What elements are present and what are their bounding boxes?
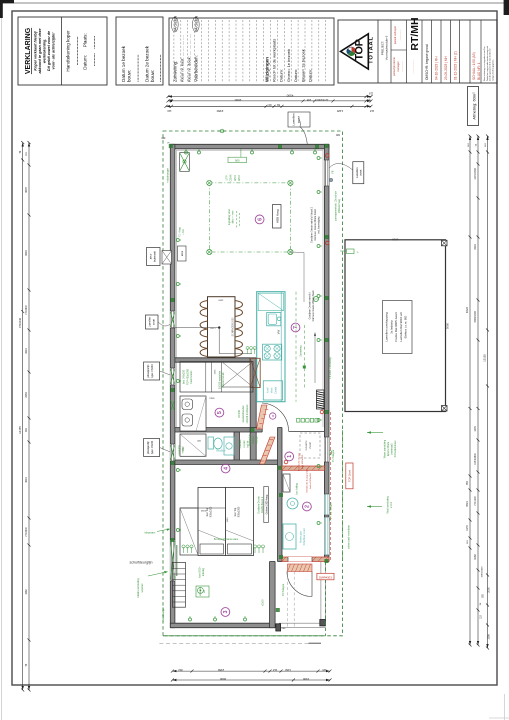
svg-text:zwart: zwart (153, 319, 156, 325)
room2 boiler (287, 498, 298, 509)
svg-text:+ hor: + hor (182, 229, 185, 235)
svg-text:12155: 12155 (483, 354, 487, 362)
svg-text:SCHRAGEN 1600: SCHRAGEN 1600 (231, 317, 234, 336)
svg-text:Afmeting: 60m²: Afmeting: 60m² (472, 92, 477, 120)
red dashed service line (330, 412, 332, 560)
svg-text:Lamellen overkapping: Lamellen overkapping (385, 312, 389, 342)
svg-text:achterwand verstelbaar: achterwand verstelbaar (348, 525, 351, 549)
svg-text:bed 140x200: bed 140x200 (183, 369, 186, 383)
svg-text:+slaahanger: +slaahanger (165, 168, 169, 183)
paraaf column (406, 20, 408, 83)
svg-text:900: 900 (235, 159, 240, 163)
svg-text:Lamellen: Lamellen (355, 167, 359, 178)
green symbol on roof line (220, 129, 224, 133)
svg-text:Datum:: Datum: (293, 69, 298, 82)
meterkast green box (180, 153, 190, 172)
logo box (377, 20, 379, 83)
svg-text:3521: 3521 (466, 501, 469, 507)
svg-text:Vries: Vries (271, 387, 274, 393)
electric symbols right wall (317, 157, 322, 160)
svg-text:rooster: rooster (243, 440, 246, 447)
svg-text:1: 1 (287, 455, 293, 458)
svg-text:kast indelen: kast indelen (190, 370, 193, 383)
svg-text:1365: 1365 (215, 369, 217, 375)
window W4 right wall (324, 160, 329, 186)
RT/MH cell (421, 20, 423, 83)
svg-text:werktekening.: werktekening. (43, 39, 47, 64)
top dim chain line 3 (166, 105, 371, 107)
electric symbols top wall (185, 149, 188, 154)
svg-text:Datum 1e bezoek: Datum 1e bezoek (121, 45, 126, 82)
kitchen stove (263, 344, 282, 360)
svg-text:1500: 1500 (302, 677, 309, 681)
porch walkway dashes (287, 572, 289, 628)
room1 dashed furniture box (300, 433, 320, 458)
svg-text:Elektra i.o.m. BG: Elektra i.o.m. BG (404, 315, 408, 338)
svg-text:1096: 1096 (487, 634, 490, 640)
svg-text:2000: 2000 (487, 587, 490, 593)
svg-text:voor- als achterzijde!: voor- als achterzijde! (52, 32, 56, 70)
verklaring divider (61, 17, 63, 85)
entrance opening room2 (288, 557, 312, 562)
room number 1 (285, 452, 294, 461)
svg-text:6: 6 (257, 218, 263, 221)
svg-text:Blauw= 2e bezoek: Blauw= 2e bezoek (301, 49, 306, 82)
svg-text:TOP 400x2000: TOP 400x2000 (186, 368, 189, 385)
svg-text:3000: 3000 (234, 98, 241, 102)
window W5 right wall teal (324, 494, 329, 515)
svg-text:01-12-2023 | MH (2): 01-12-2023 | MH (2) (453, 51, 457, 80)
svg-text:9000: 9000 (219, 677, 226, 681)
svg-text:schuifdeurglijn: schuifdeurglijn (130, 561, 153, 565)
kitchen counter (257, 292, 285, 402)
interior wall room5/room4 (175, 428, 250, 433)
svg-text:Datum 2e bezoek: Datum 2e bezoek (145, 45, 150, 82)
top green utility labels (228, 157, 247, 162)
wall top exterior (170, 144, 329, 149)
svg-text:UTP: UTP (226, 175, 229, 180)
window W3 left wall (170, 444, 175, 461)
canopy rect (345, 240, 446, 412)
svg-text:2456: 2456 (217, 668, 224, 672)
svg-text:Totaal en mag zonder toestemmi: Totaal en mag zonder toestemming niet (486, 46, 489, 81)
svg-text:TOP Gevel: TOP Gevel (349, 469, 352, 482)
svg-text:9222: 9222 (465, 306, 469, 313)
green wall junction marks (169, 144, 173, 148)
svg-text:airco: airco (181, 250, 184, 256)
canopy label box (383, 301, 413, 354)
sliding door left wall (170, 540, 175, 581)
interior wall hall vertical (278, 428, 283, 562)
left dim chain inner (28, 143, 30, 691)
site boundary dashed line bottom (159, 643, 308, 645)
svg-text:COAX: COAX (230, 174, 233, 181)
interior wall living/room5 (175, 358, 250, 362)
room2 washer (283, 524, 296, 549)
svg-text:ventilatie: ventilatie (239, 439, 242, 449)
chairs left (200, 301, 208, 317)
dining table (208, 297, 236, 357)
svg-text:loze leiding: loze leiding (297, 483, 299, 495)
electric symbols left wall (176, 239, 181, 242)
svg-text:2623: 2623 (25, 348, 28, 354)
svg-text:Voorraadmodule 6: Voorraadmodule 6 (385, 35, 389, 60)
extra window mark left wall (171, 400, 175, 411)
svg-text:14155: 14155 (18, 426, 22, 434)
svg-text:4: 4 (223, 467, 229, 470)
schaal column (480, 20, 482, 83)
svg-text:bouw:: bouw: (150, 70, 155, 82)
room5 washbasin (180, 396, 206, 431)
room2 cabinet (283, 474, 290, 492)
porch bottom edge (279, 622, 325, 624)
room number 7 (291, 323, 300, 332)
ceiling wiring dashed rect (209, 183, 290, 252)
rail leader arrow (314, 334, 316, 383)
svg-text:akkoord te gaan met deze: akkoord te gaan met deze (38, 28, 42, 73)
svg-text:5: 5 (217, 411, 223, 414)
svg-text:300: 300 (161, 136, 166, 139)
kitchen top cabinet (258, 293, 283, 311)
interior wall living/hall stub (250, 428, 262, 433)
chairs right (235, 301, 243, 317)
lamellen zwart label left (146, 315, 159, 329)
TOP gevel red label (346, 463, 353, 489)
svg-text:hakdor incl.bb: hakdor incl.bb (222, 372, 225, 388)
hatched cabinet (250, 358, 260, 387)
svg-text:inzage worden gegeven.: inzage worden gegeven. (492, 59, 494, 81)
interior wall rooms/room3 (175, 460, 282, 465)
svg-text:Heater glas: Heater glas (300, 530, 303, 543)
svg-text:BetyBoei: BetyBoei (216, 450, 226, 453)
svg-text:FB: FB (333, 170, 335, 173)
svg-text:Lamellen Ral 9010 wit: Lamellen Ral 9010 wit (399, 312, 403, 342)
glass door right wall teal (324, 517, 329, 555)
svg-text:wastafelmeubel: wastafelmeubel (242, 405, 245, 422)
svg-text:+slaahanger: +slaahanger (161, 607, 165, 622)
svg-text:3x ledstrip: 3x ledstrip (389, 320, 393, 334)
svg-text:3/4 buitendraad: 3/4 buitendraad (394, 440, 397, 457)
room number 5 (215, 408, 224, 417)
date column 2 (450, 20, 452, 83)
svg-text:Schuifdeur zwart: Schuifdeur zwart (303, 528, 306, 545)
svg-text:bed Top: bed Top (234, 507, 237, 516)
svg-text:TOP: TOP (354, 39, 366, 60)
dark hatched cabinet right wall (317, 390, 325, 409)
svg-text:Rood= tot de werkplaats: Rood= tot de werkplaats (272, 39, 277, 82)
svg-text:Boxspringbotama vaars: Boxspringbotama vaars (214, 538, 239, 541)
svg-text:(wit) 1000x450: (wit) 1000x450 (301, 454, 304, 469)
green dashed segment right (303, 325, 305, 389)
svg-text:Koper verklaart hierbij: Koper verklaart hierbij (34, 30, 38, 70)
svg-text:ventiel: ventiel (182, 446, 185, 453)
svg-text:2350: 2350 (216, 109, 223, 113)
top dim chain line 2 (168, 100, 371, 102)
entrance step red hatch (288, 564, 313, 572)
svg-text:1600: 1600 (218, 299, 224, 301)
svg-text:vloerkl: vloerkl (309, 442, 312, 449)
airco buitenunit box (147, 248, 161, 266)
svg-text:Wijzigingen: Wijzigingen (265, 57, 270, 82)
vestibule diagonal wall lower red (260, 437, 276, 464)
svg-text:Frame Ral 9005 zwart: Frame Ral 9005 zwart (394, 312, 398, 342)
svg-text:wasruimte: wasruimte (178, 444, 181, 455)
svg-text:plisséprofijn: plisséprofijn (147, 364, 150, 377)
HOB hoog label (273, 205, 282, 229)
svg-text:WIKKER: WIKKER (200, 587, 202, 596)
svg-text:5000: 5000 (445, 322, 449, 329)
porch dashed green outline (163, 635, 325, 637)
svg-text:zwart: zwart (359, 169, 363, 175)
box datum bezoek (116, 17, 163, 85)
svg-text:indeling: indeling (203, 567, 205, 576)
svg-text:1076: 1076 (474, 426, 477, 432)
right dim chain C (487, 136, 489, 648)
corner mark top-right (504, 0, 509, 15)
svg-text:Groen= 1e bezoek: Groen= 1e bezoek (286, 49, 291, 82)
left dim chain outer (22, 143, 24, 691)
svg-text:Koel/: Koel/ (267, 387, 270, 393)
svg-text:Deze tekening is en eigendom v: Deze tekening is en eigendom van Top (483, 46, 486, 81)
svg-text:29-09-2023 | MH: 29-09-2023 | MH (444, 55, 448, 80)
kitchen fridge (263, 381, 282, 400)
svg-text:verwarmo: verwarmo (305, 440, 308, 451)
svg-text:Lamellen: Lamellen (149, 316, 152, 327)
svg-text:VW: VW (277, 329, 281, 334)
bath basin (224, 437, 234, 455)
top dim chain line 1 (168, 96, 371, 98)
circled letter a (270, 413, 276, 419)
svg-text:airco: airco (150, 253, 153, 259)
svg-text:7: 7 (293, 326, 299, 329)
room3 light point (197, 587, 203, 593)
svg-text:3790/2400: 3790/2400 (474, 311, 477, 323)
canopy post BR (442, 406, 448, 412)
svg-text:2050: 2050 (25, 392, 28, 398)
svg-text:type: CS230: type: CS230 (151, 364, 154, 378)
svg-text:770/1200: 770/1200 (475, 495, 477, 505)
svg-text:118: 118 (368, 92, 373, 96)
svg-text:WCD: WCD (238, 175, 241, 181)
svg-text:worden gekopieerd of aan derde: worden gekopieerd of aan derden ter (489, 48, 492, 81)
empty column (469, 20, 471, 83)
lamellen zwart label top (288, 112, 310, 127)
light leader lines (172, 327, 219, 329)
svg-text:DKL+: DKL+ (210, 328, 216, 330)
svg-text:2: 2 (305, 505, 311, 508)
svg-text:Dit geldt zowel voor de: Dit geldt zowel voor de (47, 31, 51, 71)
svg-text:2333: 2333 (200, 509, 206, 511)
porch right edge (320, 562, 322, 624)
room3 closet (180, 508, 198, 555)
svg-text:paraaf verkoper: paraaf verkoper (393, 26, 397, 44)
porch corner post (320, 620, 326, 626)
room number 2 (303, 502, 312, 511)
wall left exterior (170, 144, 175, 627)
svg-text:....................: .................... (74, 36, 80, 65)
svg-text:DWP#303: DWP#303 (319, 575, 332, 579)
green dashed service line (342, 430, 344, 561)
right dim chain B (477, 136, 479, 645)
svg-text:......... .........: ......... ......... (91, 35, 97, 66)
svg-text:Kleur nr. doek: .... .... ....: Kleur nr. doek: .... .... .... .... (187, 34, 192, 82)
roof overhang dashed rect (163, 131, 343, 636)
svg-text:770/2400: 770/2400 (26, 304, 28, 314)
svg-text:118: 118 (272, 668, 277, 672)
vestibule diagonal wall upper red (257, 405, 269, 429)
room number 6 (255, 215, 264, 224)
svg-text:incl.bb: incl.bb (256, 436, 259, 444)
svg-text:118: 118 (369, 109, 374, 113)
svg-text:1274/2400: 1274/2400 (474, 168, 477, 180)
interior wall room2 bottom red (282, 557, 329, 562)
svg-text:Rail luxe Roede 28mm Zwart: Rail luxe Roede 28mm Zwart (312, 290, 315, 321)
svg-text:770/2400: 770/2400 (19, 317, 22, 328)
svg-text:legruiting vloer: legruiting vloer (228, 209, 231, 225)
room5 closets (180, 362, 253, 393)
right dim chain A (469, 136, 471, 645)
interior wall room3/porch (270, 562, 276, 628)
logo triangle (341, 34, 369, 69)
svg-text:TOTAAL: TOTAAL (369, 36, 375, 64)
room number 4 (221, 464, 230, 473)
canopy green mark left edge (347, 249, 355, 254)
title block outline (338, 20, 497, 83)
svg-text:Datum: Plaats:: Datum: Plaats: (83, 33, 88, 70)
green plant symbols (182, 545, 185, 553)
svg-text:voorzien: voorzien (141, 583, 144, 593)
project column (390, 20, 392, 83)
svg-text:119: 119 (167, 109, 172, 113)
wall right exterior (324, 144, 329, 561)
svg-text:5044: 5044 (209, 397, 215, 399)
interior wall room1/room2 red (282, 466, 324, 470)
svg-text:1941: 1941 (474, 244, 477, 250)
svg-text:P1 Halogee: P1 Halogee (332, 449, 335, 462)
svg-text:>: > (357, 250, 359, 254)
bottom dim chain 2 (172, 679, 330, 681)
kitchen leader line (290, 251, 304, 254)
svg-text:VERKLARING: VERKLARING (25, 27, 32, 74)
svg-text:3623: 3623 (25, 477, 28, 483)
svg-text:FB Luxe + afwerking: FB Luxe + afwerking (329, 357, 332, 379)
omschr column (431, 20, 433, 83)
box zonwering (169, 18, 334, 85)
vestibule door arc (262, 403, 289, 431)
logo sphere (347, 47, 355, 55)
svg-text:120x46 incl2loden: 120x46 incl2loden (246, 404, 249, 424)
svg-text:1425: 1425 (336, 109, 343, 113)
green plants dining (246, 347, 249, 355)
svg-text:RT/MH: RT/MH (409, 17, 421, 50)
svg-text:manager: manager (396, 61, 400, 71)
interior finish line (176, 150, 323, 427)
DWP red label (317, 573, 334, 580)
svg-text:boiler 1000x450: boiler 1000x450 (309, 472, 312, 488)
svg-text:Handtekening koper: Handtekening koper (66, 30, 71, 72)
svg-text:...............: ............... (399, 29, 402, 40)
outer page border left (0, 0, 2, 720)
interior wall room4 divider (234, 432, 240, 464)
svg-text:JA/GEEN: JA/GEEN (195, 15, 199, 32)
svg-text:buitenunit: buitenunit (154, 251, 157, 262)
svg-text:..................: .................. (411, 59, 415, 73)
svg-text:...................: ................... (135, 54, 141, 82)
type CS230 label (144, 362, 160, 380)
svg-text:JO/200: JO/200 (238, 409, 241, 417)
afmeting label (468, 87, 479, 126)
green circle symbol right wall (314, 297, 319, 302)
date column 1 (440, 20, 442, 83)
svg-text:1440: 1440 (227, 517, 229, 523)
svg-text:bouw:: bouw: (127, 70, 132, 82)
svg-text:1179: 1179 (466, 525, 469, 531)
red markers on walls (325, 154, 329, 158)
kitchen sink (267, 313, 281, 326)
svg-text:1274/2400: 1274/2400 (316, 98, 328, 101)
svg-text:Gelvert 1000 hoog: Gelvert 1000 hoog (265, 494, 268, 514)
wikker label (196, 586, 209, 597)
room1 top boundary line (289, 431, 325, 433)
svg-text:Lamellen: Lamellen (292, 113, 296, 126)
outer page border bottom right fragment (489, 717, 509, 719)
svg-text:300: 300 (335, 133, 340, 136)
porch corner post left (276, 624, 281, 631)
svg-text:plisséprofijn: plisséprofijn (147, 441, 150, 454)
svg-text:3000: 3000 (392, 237, 399, 241)
svg-text:SCHAAL: 1:50 (A3): SCHAAL: 1:50 (A3) (472, 52, 476, 80)
table light point (218, 326, 220, 328)
toilet (208, 437, 214, 449)
svg-text:1082: 1082 (474, 554, 477, 560)
svg-text:Voorbereiden:: Voorbereiden: (194, 55, 199, 82)
svg-text:4500: 4500 (286, 93, 293, 97)
svg-text:802: 802 (178, 668, 183, 672)
window W1 left wall (170, 311, 175, 328)
svg-text:incl. bevestiging: incl. bevestiging (318, 216, 321, 234)
room number 3 (221, 608, 230, 617)
box verklaring (18, 17, 107, 85)
svg-text:ø 110: ø 110 (390, 501, 393, 508)
svg-text:3: 3 (223, 611, 229, 614)
svg-text:245: 245 (306, 98, 311, 102)
svg-text:9879: 9879 (25, 187, 28, 193)
svg-text:OMSCHR: begane grond: OMSCHR: begane grond (425, 44, 429, 80)
socket row living bottom (297, 419, 300, 423)
gelvert label (264, 487, 269, 523)
svg-text:...............: ............... (401, 61, 404, 72)
shower (180, 434, 206, 456)
interior wall vertical room5/hall (250, 358, 256, 464)
svg-text:Elektrische doorge (wit): Elektrische doorge (wit) (306, 469, 309, 492)
svg-text:paraaf productie: paraaf productie (392, 57, 396, 76)
svg-text:P2 + trio Halogee: P2 + trio Halogee (330, 502, 333, 521)
electric symbols bottom wall (189, 616, 192, 621)
svg-text:6048: 6048 (25, 250, 28, 256)
dashed column dividers (173, 20, 175, 83)
svg-text:+1100: +1100 (261, 599, 265, 607)
svg-text:ditto — mm: ditto — mm (231, 211, 234, 224)
entrance door arc (287, 572, 312, 597)
date column 3 (459, 20, 461, 83)
svg-text:280mm hoog: 280mm hoog (338, 198, 341, 213)
svg-text:Gordijnen Dessin: Gordijnen Dessin (258, 495, 261, 513)
lamellen zwart label right (353, 162, 364, 184)
svg-text:Datum:: Datum: (308, 69, 313, 82)
svg-text:04-10-2023 | RH: 04-10-2023 | RH (435, 56, 439, 80)
svg-text:Datum:: Datum: (279, 69, 284, 82)
svg-text:900x2000: 900x2000 (238, 506, 241, 517)
